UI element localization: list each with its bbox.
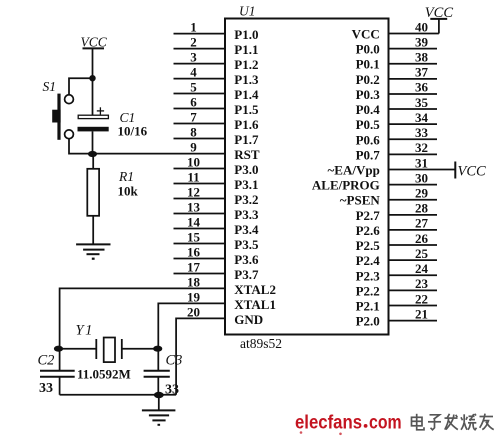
svg-text:7: 7 bbox=[190, 110, 197, 125]
svg-text:P2.7: P2.7 bbox=[356, 208, 381, 223]
logo elecfans.com (watermark) bbox=[295, 413, 402, 436]
power flag VCC (top right) bbox=[425, 5, 454, 21]
ground (below R1) bbox=[76, 244, 110, 259]
svg-text:P3.7: P3.7 bbox=[234, 267, 259, 282]
svg-text:P0.6: P0.6 bbox=[356, 132, 381, 147]
svg-text:10: 10 bbox=[187, 155, 200, 170]
svg-text:P2.5: P2.5 bbox=[356, 238, 381, 253]
pin 21 wire (P2.0) bbox=[356, 306, 437, 328]
wire pin 40 up to VCC flag bbox=[438, 19, 440, 34]
svg-text:38: 38 bbox=[415, 50, 429, 65]
pin 34 wire (P0.5) bbox=[356, 110, 437, 132]
svg-text:~EA/Vpp: ~EA/Vpp bbox=[328, 162, 380, 177]
pin 10 wire (P3.0) bbox=[174, 155, 259, 177]
svg-text:25: 25 bbox=[415, 246, 429, 261]
svg-text:32: 32 bbox=[415, 140, 428, 155]
pin 33 wire (P0.6) bbox=[356, 125, 437, 147]
svg-text:36: 36 bbox=[415, 80, 429, 95]
svg-text:P0.3: P0.3 bbox=[356, 87, 381, 102]
power flag VCC (top left) bbox=[81, 35, 108, 50]
svg-text:10k: 10k bbox=[118, 184, 139, 199]
ground (crystal circuit) bbox=[142, 410, 176, 425]
svg-text:16: 16 bbox=[187, 245, 201, 260]
svg-text:P3.0: P3.0 bbox=[234, 162, 258, 177]
node crystal right (XTAL1/C3) bbox=[153, 346, 162, 352]
svg-text:3: 3 bbox=[190, 50, 197, 65]
pin 37 wire (P0.2) bbox=[356, 65, 437, 87]
pin 16 wire (P3.6) bbox=[174, 245, 259, 267]
wire ground rail (bottom) bbox=[60, 394, 177, 396]
pin 32 wire (P0.7) bbox=[356, 140, 437, 162]
pin 29 wire (~PSEN) bbox=[340, 186, 437, 208]
svg-text:9: 9 bbox=[190, 140, 197, 155]
wire switch S1 bottom terminal to RST net bbox=[69, 139, 93, 154]
svg-text:S1: S1 bbox=[43, 79, 57, 94]
svg-text:P2.3: P2.3 bbox=[356, 268, 381, 283]
svg-text:P1.5: P1.5 bbox=[234, 102, 259, 117]
svg-text:39: 39 bbox=[415, 34, 429, 49]
svg-text:13: 13 bbox=[187, 200, 201, 215]
svg-text:XTAL1: XTAL1 bbox=[234, 297, 276, 312]
IC U1 microcontroller at89s52 bbox=[225, 4, 389, 352]
svg-text:P0.5: P0.5 bbox=[356, 117, 381, 132]
svg-text:17: 17 bbox=[187, 260, 201, 275]
svg-text:12: 12 bbox=[187, 185, 200, 200]
svg-text:P0.2: P0.2 bbox=[356, 72, 380, 87]
pin 12 wire (P3.2) bbox=[174, 185, 259, 207]
pin 8 wire (P1.7) bbox=[174, 125, 259, 147]
wire crystal left lead bbox=[59, 348, 97, 350]
svg-text:P1.0: P1.0 bbox=[234, 27, 258, 42]
svg-text:37: 37 bbox=[415, 65, 429, 80]
wire RST net to pin 9 bbox=[93, 153, 226, 155]
svg-text:C3: C3 bbox=[166, 353, 183, 369]
pin 15 wire (P3.5) bbox=[174, 230, 259, 252]
node: switch top joins VCC rail bbox=[89, 75, 95, 81]
pin 17 wire (P3.7) bbox=[174, 260, 259, 282]
svg-text:P2.6: P2.6 bbox=[356, 223, 381, 238]
pin 2 wire (P1.1) bbox=[174, 35, 259, 57]
wire pin 18 XTAL2 to crystal left node bbox=[60, 288, 225, 370]
svg-text:11: 11 bbox=[187, 170, 199, 185]
pin 7 wire (P1.6) bbox=[174, 110, 259, 132]
svg-text:P3.6: P3.6 bbox=[234, 252, 259, 267]
svg-text:P0.0: P0.0 bbox=[356, 42, 380, 57]
power tap VCC (pin 31 ~EA/Vpp) bbox=[455, 162, 486, 180]
svg-text:11.0592M: 11.0592M bbox=[77, 367, 131, 382]
svg-text:6: 6 bbox=[190, 95, 197, 110]
svg-text:26: 26 bbox=[415, 231, 429, 246]
svg-text:Y1: Y1 bbox=[76, 323, 94, 339]
svg-text:GND: GND bbox=[234, 312, 263, 327]
pin 5 wire (P1.4) bbox=[174, 80, 259, 102]
svg-text:ALE/PROG: ALE/PROG bbox=[312, 178, 380, 193]
pin 1 wire (P1.0) bbox=[174, 20, 259, 42]
svg-text:R1: R1 bbox=[118, 169, 134, 184]
svg-text:P1.2: P1.2 bbox=[234, 57, 258, 72]
svg-text:4: 4 bbox=[190, 65, 197, 80]
wire junction to ground symbol bbox=[158, 395, 160, 410]
pin 22 wire (P2.1) bbox=[356, 291, 437, 313]
svg-text:at89s52: at89s52 bbox=[240, 336, 282, 351]
pin 3 wire (P1.2) bbox=[174, 50, 259, 72]
svg-text:40: 40 bbox=[415, 19, 428, 34]
svg-text:P2.2: P2.2 bbox=[356, 283, 380, 298]
svg-text:33: 33 bbox=[415, 125, 429, 140]
svg-text:VCC: VCC bbox=[458, 164, 487, 180]
svg-text:P1.3: P1.3 bbox=[234, 72, 259, 87]
pin 28 wire (P2.7) bbox=[356, 201, 437, 223]
svg-text:C2: C2 bbox=[38, 353, 55, 369]
wire RST junction down to R1 bbox=[92, 154, 94, 169]
svg-text:27: 27 bbox=[415, 216, 429, 231]
pin 26 wire (P2.5) bbox=[356, 231, 437, 253]
svg-text:18: 18 bbox=[187, 275, 201, 290]
svg-text:8: 8 bbox=[190, 125, 197, 140]
svg-text:23: 23 bbox=[415, 276, 429, 291]
svg-text:5: 5 bbox=[190, 80, 197, 95]
svg-text:P3.5: P3.5 bbox=[234, 237, 259, 252]
text 电子发烧友 (drawn strokes) bbox=[412, 414, 494, 430]
svg-text:U1: U1 bbox=[239, 4, 256, 19]
node RST junction (S1/C1/R1) bbox=[88, 151, 97, 157]
svg-text:14: 14 bbox=[187, 215, 201, 230]
svg-text:VCC: VCC bbox=[81, 35, 108, 50]
capacitor C2 (33) bbox=[38, 353, 75, 397]
svg-text:P2.1: P2.1 bbox=[356, 298, 380, 313]
pin 18 wire (XTAL2) bbox=[187, 275, 276, 297]
pin 40 wire (VCC) bbox=[352, 19, 439, 41]
svg-text:19: 19 bbox=[187, 290, 201, 305]
svg-text:P0.1: P0.1 bbox=[356, 57, 380, 72]
capacitor C1 (electrolytic, 10/16) bbox=[78, 107, 148, 138]
svg-text:~PSEN: ~PSEN bbox=[340, 193, 381, 208]
wire VCC flag down to C1 bbox=[92, 48, 94, 115]
svg-text:elecfans: elecfans bbox=[295, 413, 362, 434]
pin 36 wire (P0.3) bbox=[356, 80, 437, 102]
wire crystal right lead bbox=[122, 348, 158, 350]
svg-text:VCC: VCC bbox=[352, 27, 380, 42]
svg-text:22: 22 bbox=[415, 291, 428, 306]
svg-text:P3.3: P3.3 bbox=[234, 207, 259, 222]
svg-text:P3.4: P3.4 bbox=[234, 222, 259, 237]
wire C1 bottom to RST net bbox=[92, 131, 94, 153]
pin 24 wire (P2.3) bbox=[356, 261, 437, 283]
svg-text:24: 24 bbox=[415, 261, 429, 276]
svg-text:21: 21 bbox=[415, 306, 428, 321]
pin 35 wire (P0.4) bbox=[356, 95, 437, 117]
svg-text:P2.4: P2.4 bbox=[356, 253, 381, 268]
pin 4 wire (P1.3) bbox=[174, 65, 259, 87]
pin 11 wire (P3.1) bbox=[174, 170, 259, 192]
pin 13 wire (P3.3) bbox=[174, 200, 259, 222]
svg-text:P2.0: P2.0 bbox=[356, 314, 380, 329]
crystal Y1 (11.0592M) bbox=[76, 323, 131, 382]
pushbutton S1 bbox=[43, 79, 74, 140]
svg-text:XTAL2: XTAL2 bbox=[234, 282, 276, 297]
svg-text:33: 33 bbox=[39, 381, 53, 396]
svg-text:P3.1: P3.1 bbox=[234, 177, 258, 192]
svg-text:20: 20 bbox=[187, 305, 200, 320]
pin 27 wire (P2.6) bbox=[356, 216, 437, 238]
wire C2 bottom to ground rail bbox=[59, 377, 61, 395]
svg-text:15: 15 bbox=[187, 230, 201, 245]
pin 14 wire (P3.4) bbox=[174, 215, 259, 237]
svg-text:29: 29 bbox=[415, 186, 429, 201]
wire switch S1 top terminal to VCC rail bbox=[69, 78, 93, 94]
pin 23 wire (P2.2) bbox=[356, 276, 437, 298]
svg-text:10/16: 10/16 bbox=[118, 124, 148, 139]
pin 9 wire (RST) bbox=[190, 140, 260, 162]
svg-text:P0.4: P0.4 bbox=[356, 102, 381, 117]
pin 39 wire (P0.0) bbox=[356, 34, 437, 56]
svg-text:28: 28 bbox=[415, 201, 429, 216]
svg-text:P1.7: P1.7 bbox=[234, 132, 259, 147]
wire C3 bottom to ground rail bbox=[157, 377, 159, 395]
wire pin 20 GND down to ground rail bbox=[176, 318, 225, 394]
svg-text:com: com bbox=[369, 413, 402, 434]
capacitor C3 (33) bbox=[144, 353, 183, 398]
svg-text:P1.6: P1.6 bbox=[234, 117, 259, 132]
pin 19 wire (XTAL1) bbox=[187, 290, 276, 312]
node crystal left (XTAL2/C2) bbox=[54, 346, 63, 352]
pin 30 wire (ALE/PROG) bbox=[312, 170, 437, 192]
svg-text:31: 31 bbox=[415, 155, 428, 170]
svg-text:P1.4: P1.4 bbox=[234, 87, 259, 102]
node ground rail junction bbox=[154, 392, 164, 398]
wire pin 19 XTAL1 to crystal right node bbox=[158, 303, 225, 370]
svg-text:2: 2 bbox=[190, 35, 197, 50]
svg-text:P1.1: P1.1 bbox=[234, 42, 258, 57]
svg-text:30: 30 bbox=[415, 170, 428, 185]
svg-text:1: 1 bbox=[190, 20, 197, 35]
svg-text:P3.2: P3.2 bbox=[234, 192, 258, 207]
pin 31 wire (~EA/Vpp) bbox=[328, 155, 456, 177]
pin 25 wire (P2.4) bbox=[356, 246, 437, 268]
svg-text:P0.7: P0.7 bbox=[356, 147, 381, 162]
svg-text:34: 34 bbox=[415, 110, 429, 125]
pin 38 wire (P0.1) bbox=[356, 50, 437, 72]
wire R1 to ground bbox=[92, 216, 94, 244]
pin 6 wire (P1.5) bbox=[174, 95, 259, 117]
svg-text:RST: RST bbox=[234, 147, 260, 162]
svg-text:35: 35 bbox=[415, 95, 429, 110]
resistor R1 (10k) bbox=[87, 169, 138, 216]
pin 20 wire (GND) bbox=[187, 305, 263, 327]
